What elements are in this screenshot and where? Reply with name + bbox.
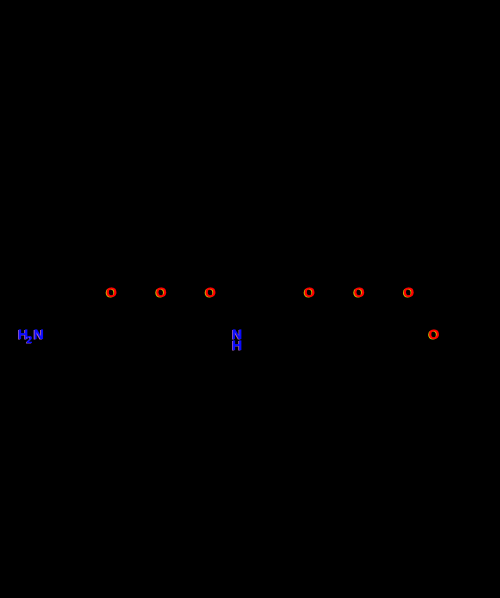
wire: chain C4-C5 (297, 343, 347, 345)
wire: carbonyl C4 double bond O (297, 302, 314, 344)
wire: amine chain bond H2N-C (44, 334, 99, 344)
wire: ester O-CH3 (442, 336, 468, 344)
wire: chain C1-C2 (99, 343, 148, 345)
wire: carbonyl C1 double bond O (99, 302, 116, 344)
wire: amide C3-N (198, 336, 228, 344)
amide nitrogen N-H (232, 329, 242, 351)
carbonyl oxygen O3 (205, 285, 216, 299)
wire: ester C6-O (396, 336, 426, 344)
wire: N-C4 chain (244, 336, 297, 344)
carbonyl oxygen O6 (403, 285, 414, 299)
carbonyl oxygen O4 (304, 285, 315, 299)
wire: carbonyl C6 double bond O (396, 302, 413, 344)
amine group H2N (18, 327, 44, 348)
wire: chain C5-C6 (347, 343, 396, 345)
ester oxygen O7 (429, 327, 440, 341)
wire: carbonyl C2 double bond O (148, 302, 166, 344)
carbonyl oxygen O1 (106, 285, 117, 299)
carbonyl oxygen O2 (156, 285, 167, 299)
wire: chain C2-C3 (148, 343, 198, 345)
carbonyl oxygen O5 (354, 285, 365, 299)
wire: carbonyl C5 double bond O (347, 302, 364, 344)
wire: carbonyl C3 double bond O (198, 302, 215, 344)
